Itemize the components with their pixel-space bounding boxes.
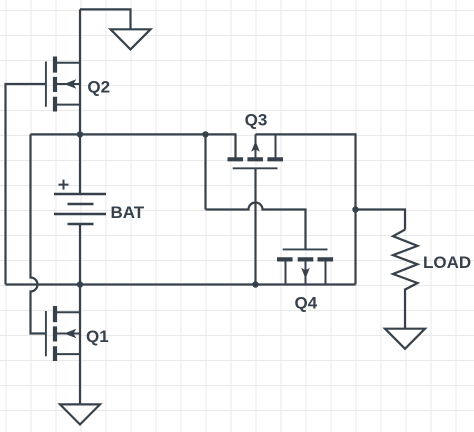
wire battery top lead [79,134,81,194]
Q3 gate bar [233,167,278,169]
svg-text:LOAD: LOAD [423,253,471,272]
BAT negative short plate 2 [68,223,94,226]
Q1 gate bar [45,311,47,356]
wire Q2 drain-source vertical [79,9,81,134]
node battery+ / rail [77,131,83,137]
wire Q1 drain-source vertical [79,285,81,355]
svg-text:Q3: Q3 [245,111,268,130]
battery BAT [54,180,106,224]
Q3 bulk arrow [251,141,260,152]
node Q4 gate feed / rail [202,131,208,137]
ground bottom left [60,404,100,424]
node load junction [352,206,358,212]
Q1 bulk arrow [64,329,76,338]
wire bottom rail [6,283,356,285]
resistor LOAD [393,230,418,329]
BAT positive long plate [54,193,106,196]
wire top rail right segment [256,134,356,209]
Q4 drain, bulk and source connectors [286,259,326,284]
wire Q3 gate down to bottom rail [254,168,256,284]
wire right vertical from junction down to bottom rail [354,210,356,285]
transistor Q4 [277,249,333,284]
ground top [111,29,151,49]
wire Q2 gate to left rail down to bottom rail [6,84,46,285]
BAT plus polarity sign [59,180,69,190]
wire to Q4 gate with hop over Q3 gate wire [206,203,306,250]
Q3 drain, bulk and source connectors [236,134,276,159]
wire from top rail down to Q4 gate wire [204,134,206,209]
Q2 bulk arrow [64,79,76,88]
Q3 channel segments [228,157,284,161]
wire battery bottom lead [79,224,81,285]
BAT positive long plate 2 [54,213,106,216]
Q4 bulk arrow [301,268,310,279]
node battery- / bottom rail [77,281,83,287]
wire junction to load [356,210,406,230]
svg-text:BAT: BAT [111,203,145,222]
svg-text:Q1: Q1 [86,327,109,346]
Q2 channel segments [53,57,57,112]
Q4 gate bar [283,248,328,250]
wire top rail left segment [31,134,236,159]
Q1 drain, bulk and source connectors [55,312,80,354]
wire top from Q2 drain to ground [80,9,131,29]
node Q3 gate / bottom rail [252,281,258,287]
wire Q1 source to ground [79,354,81,404]
Q2 gate bar [45,62,47,107]
ground bottom right [385,329,425,349]
transistor Q3 [228,134,284,168]
wire left vertical with hop over bottom rail to Q1 gate [31,134,46,333]
svg-text:Q2: Q2 [87,77,110,96]
Q1 channel segments [53,306,57,361]
BAT negative short plate [68,203,94,206]
Q2 drain, bulk and source connectors [55,63,80,105]
Q4 channel segments [277,257,333,261]
transistor Q1 [46,306,80,361]
junction dots [77,131,359,287]
svg-text:Q4: Q4 [295,293,318,312]
transistor Q2 [46,57,80,112]
